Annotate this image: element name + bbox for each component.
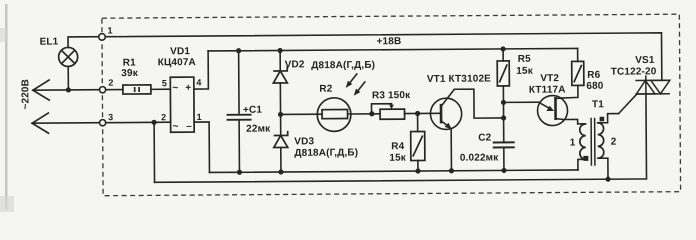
wire: R6 top from +18V rail [577, 48, 579, 61]
wire: lamp EL1 to node 2 line [67, 66, 69, 89]
transformer T1 winding 1 [580, 124, 586, 160]
svg-text:Д818А(Г,Д,Б): Д818А(Г,Д,Б) [294, 147, 358, 158]
svg-text:39к: 39к [121, 68, 138, 79]
zener diode VD3 [274, 131, 288, 148]
junction: R4 bottom [415, 168, 420, 173]
label R4 value 15k [389, 141, 407, 164]
wire: R1 to VD1 pin 5 [151, 88, 170, 90]
svg-text:VS1: VS1 [635, 55, 655, 66]
transformer T1 winding 2 [598, 123, 604, 159]
junction: C1 top [236, 48, 241, 53]
junction: T1 winding2 bottom [605, 177, 610, 182]
junction: VD3 bottom [278, 169, 283, 174]
wire: R5 top [502, 49, 504, 61]
wire: node 3 branch down to lower rail [153, 122, 155, 182]
junction: node3 branch [151, 120, 156, 125]
variable resistor R3 [380, 109, 405, 119]
junction: R5 top [500, 46, 505, 51]
resistor R6 [572, 61, 584, 85]
wire: R2 to R3 [348, 113, 380, 115]
triac VS1 [635, 75, 670, 94]
wire: node 2 to resistor R1 [106, 89, 123, 91]
VD1 polarity marks [172, 83, 192, 133]
svg-text:5: 5 [162, 78, 167, 88]
wire: VT1 emitter down [450, 129, 452, 171]
bridge rectifier VD1 [170, 77, 194, 132]
wire: VT2 base 1 to T1 winding 1 [563, 119, 586, 124]
junction: zener midpoint [278, 112, 283, 117]
svg-text:VT1 КТ3102Е: VT1 КТ3102Е [427, 74, 491, 85]
svg-text:0.022мк: 0.022мк [460, 152, 499, 163]
svg-text:1: 1 [107, 25, 112, 35]
svg-text:15к: 15к [389, 153, 406, 164]
resistor R1 [123, 85, 151, 94]
wire: node A to VT2 emitter [503, 101, 538, 103]
wire: VD2 to mid node [279, 83, 281, 114]
svg-text:~: ~ [173, 121, 179, 132]
wire: VT1 collector to node B [454, 89, 503, 118]
wire: mid node to photoresistor R2 [281, 113, 322, 115]
wire: mid node to VD3 [280, 114, 282, 135]
svg-text:+C1: +C1 [243, 105, 262, 116]
svg-text:C2: C2 [478, 132, 491, 143]
label VD2 [285, 59, 375, 72]
svg-text:1: 1 [197, 112, 202, 122]
junction: node B [501, 115, 506, 120]
svg-text:~: ~ [172, 83, 178, 94]
T1 core [591, 118, 595, 166]
wire: R3 wiper tie [371, 104, 391, 114]
label R6 value 680 [586, 70, 604, 92]
svg-text:Т1: Т1 [592, 99, 604, 110]
scan edge streak left [0, 4, 14, 212]
svg-text:КТ117А: КТ117А [529, 84, 566, 95]
wire: C1 top [238, 51, 240, 115]
label R5 value 15k [516, 54, 534, 77]
wire: VD3 to minus rail [280, 147, 282, 171]
svg-text:R1: R1 [123, 57, 136, 68]
svg-text:~220В: ~220В [20, 79, 31, 110]
svg-text:R3 150к: R3 150к [372, 90, 411, 101]
svg-text:22мк: 22мк [246, 124, 271, 135]
svg-text:VD3: VD3 [294, 136, 314, 147]
wire: R5 bottom to node A [502, 86, 504, 102]
wire: plug pin to node 2 [33, 89, 99, 91]
svg-text:VT2: VT2 [540, 73, 559, 84]
svg-text:–: – [186, 121, 192, 132]
node 3 [99, 112, 113, 126]
junction: VD2 top [277, 48, 282, 53]
svg-text:EL1: EL1 [40, 37, 59, 48]
capacitor C1 [227, 115, 252, 120]
node 1 [99, 25, 113, 40]
label C2 value 0.022uF [460, 132, 500, 163]
svg-text:4: 4 [196, 78, 201, 88]
svg-text:680: 680 [586, 81, 603, 92]
svg-text:R6: R6 [587, 70, 600, 81]
wire: lamp EL1 to node 1 [68, 37, 99, 48]
wire: +18V rail [208, 48, 577, 51]
VT2 emitter lead with arrow [538, 102, 554, 111]
unijunction transistor VT2 [537, 95, 567, 125]
wire: plug pin to node 3 [32, 122, 99, 124]
light arrow 1 [346, 73, 357, 87]
svg-text:КЦ407А: КЦ407А [158, 57, 196, 68]
wire: R3 to VT1 base [405, 112, 441, 114]
label VS1 [611, 55, 657, 78]
wire: C1 bottom [238, 120, 240, 172]
svg-text:R4: R4 [391, 141, 404, 152]
VT1 base bar [440, 104, 443, 123]
zener diode VD2 [273, 66, 287, 83]
wire: gate diagonal to VS1 [618, 94, 637, 114]
svg-text:1: 1 [570, 137, 576, 148]
wire: R4 top [417, 114, 419, 132]
VT1 emitter lead with arrow [441, 121, 452, 129]
wire: VD2 top [279, 50, 281, 70]
plug pin contact (upper) [33, 80, 50, 101]
junction: R3 left [369, 111, 374, 116]
transistor VT1 [430, 98, 461, 129]
R3 wiper arrow [389, 105, 394, 110]
wire: node A to node B to C2 [502, 102, 504, 142]
wire: VD1 pin 1 to minus rail [194, 122, 209, 173]
lamp EL1 [59, 47, 78, 66]
enclosure dashed border [102, 14, 681, 196]
svg-text:ТС122-20: ТС122-20 [611, 66, 657, 77]
T1 winding 2 polarity mark [600, 117, 605, 122]
VT1 collector lead [441, 89, 455, 106]
resistor R4 [411, 131, 425, 160]
junction: C2 bottom [501, 168, 506, 173]
svg-text:VD2: VD2 [285, 59, 305, 70]
wire: lower rail (node 3 net) to triac VS1 bottom [154, 94, 647, 182]
label VT2 [529, 73, 566, 96]
VT2 base bar [554, 97, 557, 120]
wire: node 1 rail to triac VS1 top [106, 33, 662, 84]
junction: lamp to node2 line [66, 87, 71, 92]
wire: R6 bottom to VT2 base 2 [562, 85, 578, 98]
wire: T1 winding 1 bottom to minus rail [578, 159, 586, 170]
T1 winding 1 polarity mark [583, 156, 588, 161]
photoresistor R2 [317, 98, 351, 132]
svg-text:15к: 15к [516, 66, 533, 77]
svg-text:R2: R2 [319, 84, 332, 95]
plug pin contact (lower) [32, 113, 49, 134]
svg-text:3: 3 [108, 112, 113, 122]
junction: VT1 emitter [449, 168, 454, 173]
svg-text:2: 2 [108, 78, 113, 88]
resistor R5 [497, 61, 509, 86]
node 2 [99, 78, 113, 93]
wire: minus rail [209, 170, 577, 173]
svg-text:2: 2 [611, 137, 617, 148]
label VD3 [294, 136, 358, 159]
light arrow 2 [354, 81, 365, 95]
wire: T1 winding 2 bottom to lower rail [598, 158, 608, 179]
svg-text:+18В: +18В [377, 36, 402, 47]
wire: node 3 to VD1 pin 2 [106, 121, 171, 123]
label C1 value 22uF [243, 105, 271, 135]
svg-text:Д818А(Г,Д,Б): Д818А(Г,Д,Б) [311, 60, 375, 71]
junction: node A [501, 100, 506, 105]
capacitor C2 [493, 142, 515, 147]
junction: R4 top [415, 111, 420, 116]
label VD1 [158, 46, 196, 68]
wire: C2 bottom [503, 147, 505, 170]
wire: T1 winding 2 top to triac gate [598, 114, 619, 123]
svg-text:+: + [185, 83, 191, 94]
wire: VD1 pin 4 to +18V rail [194, 51, 209, 89]
svg-text:R5: R5 [518, 54, 531, 65]
svg-text:2: 2 [161, 112, 166, 122]
label R1 value 39k [121, 57, 139, 79]
VT2 base2 lead [555, 97, 562, 100]
junction: C1 bottom [237, 170, 242, 175]
wire: R4 bottom [417, 161, 419, 171]
svg-text:VD1: VD1 [170, 46, 190, 57]
VT2 base1 lead [556, 118, 564, 119]
